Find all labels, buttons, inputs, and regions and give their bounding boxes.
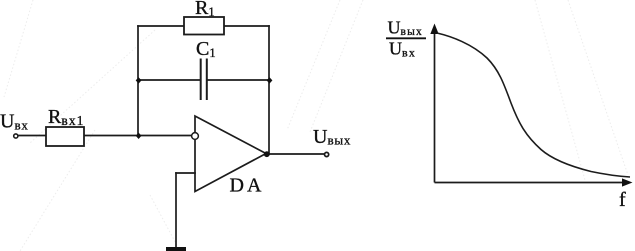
op-amp DA [192,116,266,192]
graph y-axis [430,24,438,183]
wire output (apex to output terminal) [266,153,324,155]
wire non-inverting input horizontal [176,172,195,174]
wire top horizontal left (to R1) [138,25,184,27]
wire capacitor left [138,79,200,81]
terminal Uвых [325,152,329,156]
wire non-inverting input vertical to ground [175,173,177,247]
junction at input line [136,133,142,139]
ground [166,247,186,251]
wire top-left vertical (R1/C1 left to input line) [137,26,139,136]
terminal Uвх [14,134,18,138]
wire top horizontal right (R1 to right branch) [224,25,269,27]
wire right vertical (feedback branch) [268,26,270,154]
resistor R1 [184,17,224,35]
svg-text:DA: DA [230,175,265,197]
frequency response curve [437,33,630,177]
junction at C1 left [136,77,142,83]
junction at C1 right [267,77,273,83]
wire capacitor right [208,79,270,81]
graph x-axis [435,178,633,186]
capacitor C1 [201,59,207,101]
svg-text:f: f [619,189,626,211]
resistor Rвх1 [46,127,84,146]
label Uвых/Uвх ratio [386,18,426,60]
wire input (terminal to Rвх1) [18,135,46,137]
junction at op-amp output [264,151,270,157]
wire Rвх1 to op-amp inverting input [84,135,192,137]
